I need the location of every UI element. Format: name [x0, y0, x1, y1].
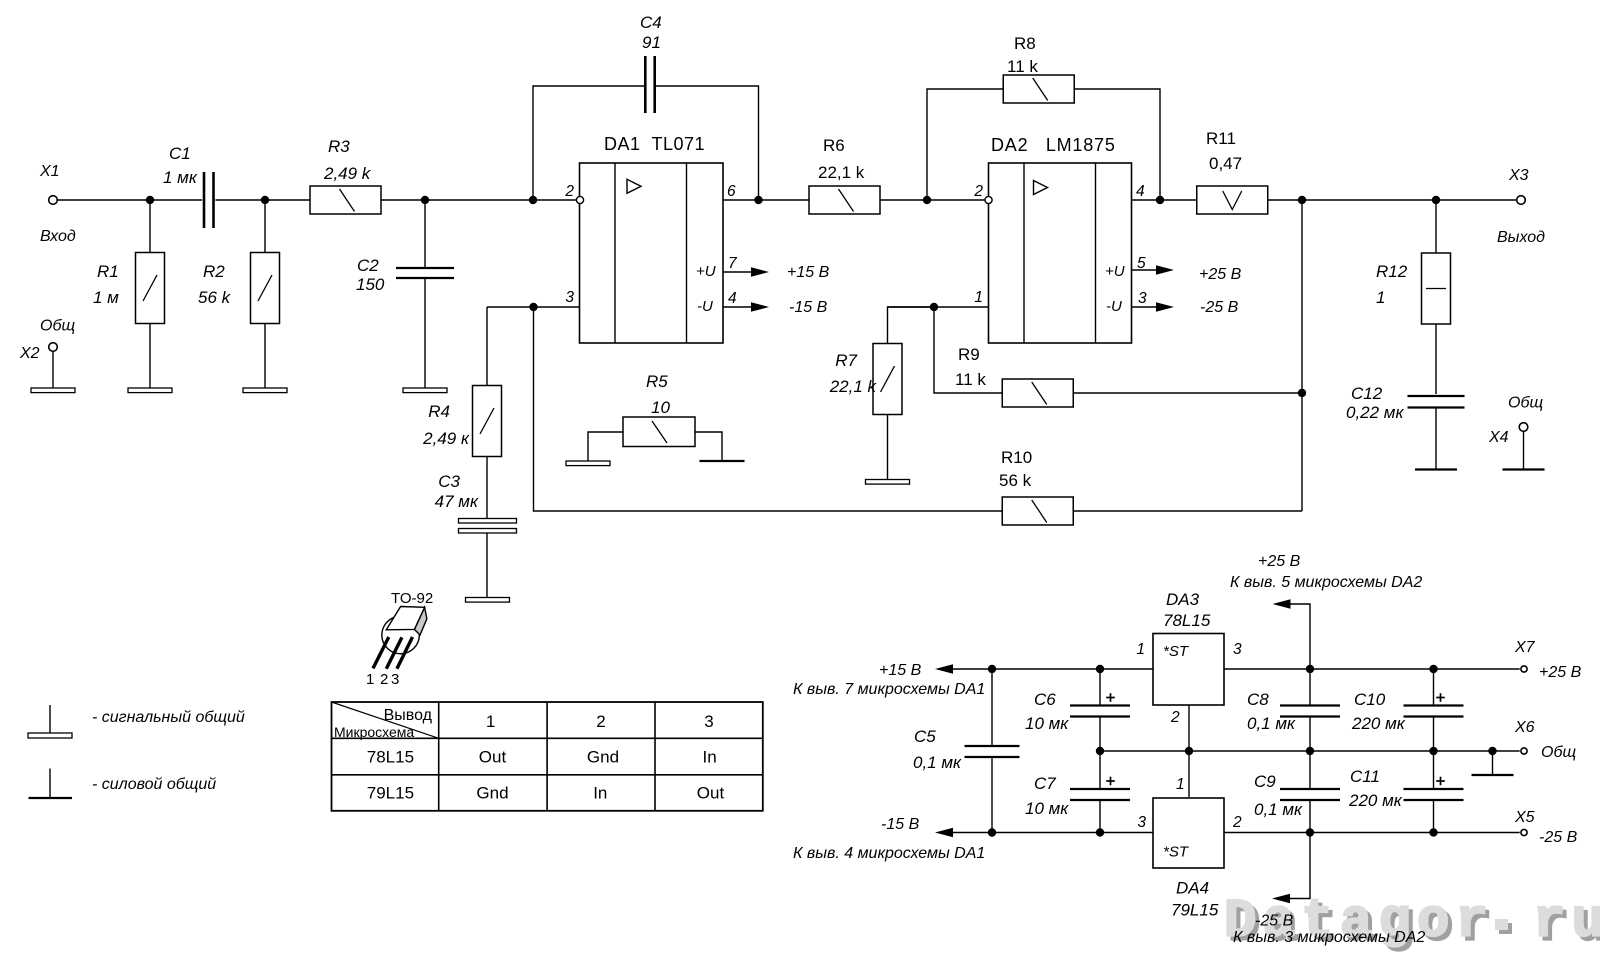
capacitor C8	[1309, 669, 1311, 705]
svg-text:0,1 мк: 0,1 мк	[1254, 800, 1303, 819]
wire R10 to node K	[1074, 510, 1303, 512]
svg-text:R12: R12	[1376, 262, 1408, 281]
terminal X6	[1521, 748, 1527, 754]
ground power C12	[1415, 468, 1457, 470]
svg-text:R5: R5	[646, 372, 668, 391]
svg-text:X5: X5	[1514, 809, 1535, 826]
svg-text:4: 4	[728, 290, 737, 307]
svg-text:Выход: Выход	[1497, 229, 1545, 246]
svg-text:R2: R2	[203, 262, 225, 281]
svg-text:C12: C12	[1351, 384, 1383, 403]
wire DA4 pin1	[1188, 751, 1190, 797]
node P11 junction	[1488, 747, 1496, 755]
svg-text:22,1 k: 22,1 k	[829, 377, 878, 396]
svg-text:4: 4	[1136, 183, 1145, 200]
svg-text:R9: R9	[958, 345, 980, 364]
wire DA2 pin1	[888, 306, 989, 308]
middle rail	[1100, 750, 1520, 752]
wire X6 ground drop	[1492, 751, 1494, 775]
node P5 junction	[1096, 747, 1104, 755]
arrow -25V tap	[1290, 833, 1310, 899]
svg-text:+15 В: +15 В	[787, 264, 830, 281]
svg-text:R7: R7	[835, 351, 857, 370]
arrow +15V rail	[935, 664, 953, 673]
svg-text:2,49 k: 2,49 k	[323, 164, 372, 183]
svg-text:7: 7	[728, 255, 738, 272]
svg-text:DA1 TL071: DA1 TL071	[604, 134, 705, 154]
regulator DA4 79L15	[1153, 798, 1224, 868]
svg-text:2: 2	[596, 712, 605, 731]
ground signal R1	[128, 388, 172, 393]
wire node F to R10	[534, 307, 1003, 511]
svg-text:-25 В: -25 В	[1200, 299, 1239, 316]
svg-text:X3: X3	[1508, 167, 1529, 184]
wire DA2 pin4 to R11	[1132, 199, 1197, 201]
svg-text:C3: C3	[438, 472, 460, 491]
svg-text:In: In	[593, 784, 607, 803]
svg-text:91: 91	[642, 33, 661, 52]
svg-text:1 м: 1 м	[93, 288, 119, 307]
svg-text:X2: X2	[19, 345, 40, 362]
svg-text:C8: C8	[1247, 690, 1269, 709]
arrow +25V DA2	[1132, 269, 1159, 271]
wire R11 to X3	[1268, 199, 1517, 201]
ground signal C3	[466, 598, 510, 603]
svg-text:*ST: *ST	[1163, 844, 1190, 861]
ground signal X2	[31, 388, 75, 393]
svg-text:Out: Out	[479, 748, 507, 767]
ground power X6	[1472, 774, 1514, 776]
svg-text:79L15: 79L15	[1171, 901, 1219, 920]
ground signal R2	[243, 388, 287, 393]
terminal X1	[49, 196, 58, 205]
svg-text:10: 10	[651, 398, 670, 417]
svg-text:56 k: 56 k	[999, 471, 1032, 490]
capacitor C3	[459, 519, 517, 524]
svg-text:R11: R11	[1206, 129, 1236, 148]
svg-text:Out: Out	[697, 784, 725, 803]
svg-text:*ST: *ST	[1163, 643, 1190, 660]
ground signal R5	[566, 461, 610, 466]
svg-text:+15 В: +15 В	[879, 662, 922, 679]
wire vertical node K	[1301, 200, 1303, 511]
pin 2 circle DA2	[985, 196, 992, 203]
wire DA3 pin2	[1188, 705, 1190, 751]
svg-text:2: 2	[564, 183, 574, 200]
wire X2 to ground	[52, 351, 54, 388]
op-amp DA1 TL071	[580, 163, 724, 343]
resistor R12	[1435, 200, 1437, 253]
wire DA1 pin6 to R6	[723, 199, 809, 201]
wire DA1 pin3	[487, 306, 580, 308]
svg-text:- сигнальный общий: - сигнальный общий	[92, 709, 245, 726]
rail DA3 pin3 to X7	[1224, 668, 1520, 670]
ground power R5	[700, 460, 745, 462]
svg-text:+25 В: +25 В	[1258, 553, 1301, 570]
terminal X7	[1521, 666, 1527, 672]
node G junction	[923, 196, 931, 204]
wire X1 to node A	[57, 199, 150, 201]
resistor R1	[149, 204, 151, 253]
node I junction	[930, 303, 938, 311]
svg-text:1: 1	[1176, 776, 1185, 793]
svg-text:3: 3	[1137, 814, 1146, 831]
svg-text:3: 3	[1138, 290, 1147, 307]
resistor R11	[1197, 186, 1268, 214]
capacitor C12	[1408, 395, 1465, 397]
svg-text:1: 1	[486, 712, 495, 731]
node M junction	[1432, 196, 1440, 204]
svg-text:3: 3	[391, 671, 399, 688]
svg-text:In: In	[703, 748, 717, 767]
svg-text:C1: C1	[169, 144, 191, 163]
svg-text:+25 В: +25 В	[1199, 266, 1242, 283]
resistor R10	[1002, 497, 1073, 525]
capacitor C4	[533, 86, 644, 200]
ground signal C2	[403, 388, 447, 393]
node H junction	[1156, 196, 1164, 204]
svg-text:C5: C5	[914, 727, 936, 746]
svg-text:-U: -U	[1106, 298, 1122, 315]
svg-text:3: 3	[704, 712, 713, 731]
svg-text:6: 6	[727, 183, 736, 200]
node P4 junction	[1096, 828, 1104, 836]
svg-text:К выв. 5 микросхемы DA2: К выв. 5 микросхемы DA2	[1230, 574, 1422, 591]
svg-text:X1: X1	[39, 163, 60, 180]
arrow -15V rail	[935, 828, 953, 837]
node D junction	[529, 196, 537, 204]
svg-text:2,49 к: 2,49 к	[422, 429, 470, 448]
wire R6 to DA2 pin2	[880, 199, 985, 201]
capacitor C6	[1099, 669, 1101, 705]
svg-text:3: 3	[565, 289, 574, 306]
node P7 junction	[1306, 665, 1314, 673]
svg-text:TO-92: TO-92	[391, 590, 433, 607]
svg-text:X7: X7	[1514, 639, 1536, 656]
svg-text:R6: R6	[823, 136, 845, 155]
resistor R2	[264, 204, 266, 253]
resistor R8	[927, 89, 1003, 200]
svg-text:Микросхема: Микросхема	[334, 724, 414, 740]
svg-text:0,22 мк: 0,22 мк	[1346, 403, 1404, 422]
rail DA4 pin2 to X5	[1224, 832, 1520, 834]
arrow +25V tap	[1290, 604, 1310, 669]
node P1 junction	[988, 665, 996, 673]
svg-text:220 мк: 220 мк	[1351, 714, 1406, 733]
svg-text:К выв. 7 микросхемы DA1: К выв. 7 микросхемы DA1	[793, 681, 985, 698]
legend power ground	[49, 769, 51, 799]
node P13 junction	[1429, 828, 1437, 836]
svg-text:C2: C2	[357, 256, 379, 275]
svg-text:0,1 мк: 0,1 мк	[1247, 714, 1296, 733]
pinout table frame	[332, 702, 763, 811]
arrow -15V DA1	[723, 306, 753, 308]
svg-text:DA4: DA4	[1176, 879, 1209, 898]
node A junction	[146, 196, 154, 204]
wire node B to R3	[265, 199, 310, 201]
svg-text:- силовой общий: - силовой общий	[92, 776, 216, 793]
svg-text:-15 В: -15 В	[789, 299, 828, 316]
node P2 junction	[1096, 665, 1104, 673]
svg-text:Gnd: Gnd	[587, 748, 619, 767]
svg-text:47 мк: 47 мк	[435, 492, 479, 511]
wire R9 to node K	[1074, 392, 1303, 394]
capacitor C9	[1309, 751, 1311, 788]
terminal X3	[1517, 196, 1526, 205]
node P10 junction	[1429, 747, 1437, 755]
arrow +15V DA1	[723, 271, 753, 273]
svg-text:Вход: Вход	[40, 228, 76, 245]
svg-text:0,1 мк: 0,1 мк	[913, 753, 962, 772]
svg-text:10 мк: 10 мк	[1025, 714, 1069, 733]
svg-text:DA3: DA3	[1166, 590, 1200, 609]
svg-text:1: 1	[1136, 641, 1145, 658]
capacitor C5	[991, 669, 993, 745]
svg-text:2: 2	[1170, 709, 1180, 726]
node F junction	[529, 303, 537, 311]
svg-text:79L15: 79L15	[367, 784, 414, 803]
arrow -25V DA2	[1132, 306, 1159, 308]
wire R3 to DA1 pin2	[381, 199, 585, 201]
op-amp DA2 LM1875	[989, 163, 1132, 343]
svg-text:+U: +U	[1105, 263, 1125, 280]
svg-text:150: 150	[356, 275, 385, 294]
svg-text:2: 2	[1232, 814, 1242, 831]
wire X4 to ground	[1523, 431, 1525, 469]
svg-text:C6: C6	[1034, 690, 1056, 709]
svg-text:0,47: 0,47	[1209, 154, 1242, 173]
node K junction	[1298, 389, 1306, 397]
svg-text:R8: R8	[1014, 34, 1036, 53]
svg-text:ru: ru	[1533, 892, 1600, 953]
resistor R4	[486, 307, 488, 385]
svg-text:C4: C4	[640, 13, 662, 32]
capacitor C10	[1433, 669, 1435, 705]
svg-text:R4: R4	[428, 402, 450, 421]
svg-text:1 мк: 1 мк	[163, 168, 198, 187]
node P8 junction	[1429, 665, 1437, 673]
svg-text:К выв. 3 микросхемы DA2: К выв. 3 микросхемы DA2	[1233, 929, 1425, 946]
regulator DA3 78L15	[1153, 634, 1224, 706]
svg-text:1: 1	[366, 671, 374, 688]
svg-text:3: 3	[1233, 641, 1242, 658]
legend signal ground	[49, 705, 51, 733]
svg-text:Общ: Общ	[40, 318, 75, 335]
resistor R5	[588, 432, 623, 461]
node P3 junction	[988, 828, 996, 836]
svg-text:C10: C10	[1354, 690, 1386, 709]
svg-text:-25 В: -25 В	[1255, 913, 1294, 930]
svg-text:Вывод: Вывод	[384, 707, 433, 724]
ground power X4	[1503, 468, 1545, 470]
node E junction	[754, 196, 762, 204]
resistor R9	[934, 307, 1002, 393]
svg-text:C9: C9	[1254, 772, 1276, 791]
svg-text:+25 В: +25 В	[1539, 664, 1582, 681]
node B junction	[261, 196, 269, 204]
svg-text:-U: -U	[697, 298, 713, 315]
svg-text:78L15: 78L15	[1163, 611, 1211, 630]
terminal X5	[1521, 829, 1527, 835]
watermark Datagor.ru	[1224, 892, 1600, 957]
svg-text:C11: C11	[1350, 767, 1380, 786]
svg-text:Gnd: Gnd	[476, 784, 508, 803]
node L junction	[1298, 196, 1306, 204]
ground signal R7	[866, 480, 910, 485]
svg-text:+U: +U	[696, 263, 716, 280]
node P9 junction	[1306, 747, 1314, 755]
svg-text:R1: R1	[97, 262, 119, 281]
capacitor C2	[424, 200, 426, 267]
svg-text:DA2 LM1875: DA2 LM1875	[991, 135, 1116, 155]
node P6 junction	[1185, 747, 1193, 755]
svg-text:11 k: 11 k	[955, 370, 986, 389]
svg-text:1: 1	[974, 289, 983, 306]
node C junction	[421, 196, 429, 204]
capacitor C1	[150, 199, 202, 201]
svg-text:-25 В: -25 В	[1539, 829, 1578, 846]
capacitor C11	[1433, 751, 1435, 788]
svg-text:R10: R10	[1001, 448, 1032, 467]
svg-text:Общ: Общ	[1508, 395, 1543, 412]
capacitor C7	[1099, 751, 1101, 788]
svg-text:22,1 k: 22,1 k	[818, 163, 865, 182]
svg-text:1: 1	[1376, 288, 1385, 307]
svg-text:-15 В: -15 В	[881, 816, 920, 833]
svg-text:К выв. 4 микросхемы DA1: К выв. 4 микросхемы DA1	[793, 845, 985, 862]
svg-text:Общ: Общ	[1541, 744, 1576, 761]
resistor R3	[310, 186, 381, 214]
svg-text:2: 2	[973, 183, 983, 200]
svg-text:2: 2	[380, 671, 388, 688]
svg-text:C7: C7	[1034, 774, 1056, 793]
svg-text:X4: X4	[1488, 429, 1509, 446]
svg-text:X6: X6	[1514, 719, 1535, 736]
svg-text:11 k: 11 k	[1007, 57, 1038, 76]
node P12 junction	[1306, 828, 1314, 836]
pin 2 circle DA1	[576, 196, 583, 203]
resistor R7	[888, 307, 935, 343]
svg-text:R3: R3	[328, 137, 350, 156]
svg-text:220 мк: 220 мк	[1348, 791, 1403, 810]
resistor R6	[809, 186, 880, 214]
svg-text:78L15: 78L15	[367, 748, 414, 767]
svg-text:56 k: 56 k	[198, 288, 232, 307]
svg-text:10 мк: 10 мк	[1025, 799, 1069, 818]
